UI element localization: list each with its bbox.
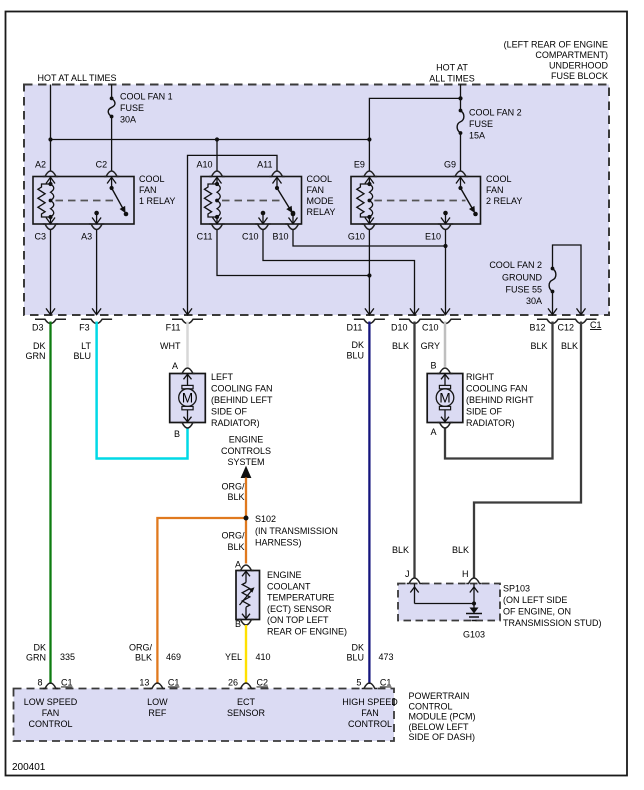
label: COOL FAN 2 RELAY <box>486 174 522 206</box>
wire: A10 feed from bus <box>216 140 218 172</box>
label: COOL FAN 2 GROUND FUSE 55 30A <box>489 260 542 306</box>
label: ECT SENSOR <box>267 570 347 637</box>
svg-text:COOLING FAN: COOLING FAN <box>466 384 528 394</box>
svg-text:FUSE: FUSE <box>469 119 493 129</box>
svg-text:(LEFT REAR OF ENGINE: (LEFT REAR OF ENGINE <box>504 40 608 50</box>
relay COOL FAN 2 RELAY dashed link <box>374 200 465 202</box>
ECT sensor box <box>236 571 260 620</box>
motor RIGHT COOLING FAN pin A/B bumps <box>437 368 452 428</box>
label: POWERTRAIN CONTROL MODULE (PCM) (BELOW LEFT SIDE OF DASH) <box>409 691 476 742</box>
svg-text:B: B <box>235 619 241 629</box>
label: COOL FAN 1 FUSE 30A <box>120 92 173 125</box>
relay pin G9 (top) <box>444 160 468 177</box>
relay COOL FAN 2 RELAY switch <box>456 177 478 216</box>
svg-text:C1: C1 <box>380 678 392 688</box>
svg-text:COMPARTMENT): COMPARTMENT) <box>535 50 608 60</box>
svg-text:M: M <box>182 390 193 405</box>
relay COOL FAN 1 RELAY contact pin stub x=96.6 <box>92 211 101 224</box>
svg-text:J: J <box>405 569 410 579</box>
svg-text:POWERTRAIN: POWERTRAIN <box>409 691 470 701</box>
svg-text:HOT AT ALL TIMES: HOT AT ALL TIMES <box>38 73 117 83</box>
fuse block exit pin F11 <box>166 308 203 332</box>
svg-text:HIGH SPEED: HIGH SPEED <box>342 697 398 707</box>
svg-text:473: 473 <box>379 652 394 662</box>
svg-text:(IN TRANSMISSION: (IN TRANSMISSION <box>255 526 338 536</box>
svg-text:DK: DK <box>351 340 364 350</box>
SP103 pin J <box>405 569 422 584</box>
svg-text:CONTROLS: CONTROLS <box>221 446 271 456</box>
svg-text:HARNESS): HARNESS) <box>255 538 302 548</box>
svg-text:GRY: GRY <box>421 341 440 351</box>
svg-text:(ECT) SENSOR: (ECT) SENSOR <box>267 604 332 614</box>
fuse COOL FAN 2 GROUND FUSE 55 30A <box>551 267 555 271</box>
relay COOL FAN MODE RELAY switch <box>273 177 296 216</box>
label: COOL FAN 1 RELAY <box>139 174 175 206</box>
fuse block exit pin D10 <box>391 308 430 332</box>
svg-text:BLK: BLK <box>561 341 578 351</box>
motor LEFT COOLING FAN <box>170 374 206 423</box>
arrow to engine controls system <box>241 466 252 478</box>
svg-text:A10: A10 <box>196 160 212 170</box>
svg-text:F3: F3 <box>79 323 90 333</box>
SP103 box <box>398 584 500 621</box>
wire: B12 riser + ground-fuse loop to C12 <box>552 292 554 315</box>
svg-text:ENGINE: ENGINE <box>267 570 302 580</box>
svg-text:REF: REF <box>148 708 167 718</box>
svg-text:COOL FAN 1: COOL FAN 1 <box>120 92 173 102</box>
svg-text:S102: S102 <box>255 514 276 524</box>
header note: location of fuse block <box>504 40 609 82</box>
svg-text:30A: 30A <box>120 115 136 125</box>
relay box COOL FAN MODE RELAY <box>201 177 302 225</box>
svg-text:200401: 200401 <box>12 762 46 773</box>
ground G103 <box>466 608 482 621</box>
svg-text:(BEHIND LEFT: (BEHIND LEFT <box>211 395 273 405</box>
svg-text:FAN: FAN <box>486 185 504 195</box>
svg-text:MODULE (PCM): MODULE (PCM) <box>409 712 476 722</box>
svg-text:G103: G103 <box>463 630 485 640</box>
label SP103 (ON LEFT SIDE OF ENGINE, ON TRANSMISSION STUD) <box>503 584 602 629</box>
wire: power bus <box>51 139 370 141</box>
label: RIGHT COOLING FAN <box>466 372 534 428</box>
node: HOT AT ALL TIMES (right) <box>429 63 475 84</box>
wire DK GRN circuit 335 (D3 to PCM pin 8) <box>49 322 51 685</box>
svg-text:COOLING FAN: COOLING FAN <box>211 384 273 394</box>
node: ENGINE CONTROLS SYSTEM <box>221 435 271 468</box>
wire: mode relay C10 to D10 <box>263 230 415 315</box>
svg-text:SP103: SP103 <box>503 584 530 594</box>
svg-text:ECT: ECT <box>237 697 256 707</box>
junction dots on bus <box>48 137 52 141</box>
wire BLK (D10 to SP103 J) <box>413 322 415 579</box>
relay COOL FAN MODE RELAY contact pin stub x=263 <box>259 211 268 224</box>
relay pin A2 (top) <box>35 160 58 177</box>
svg-text:SENSOR: SENSOR <box>227 708 266 718</box>
svg-text:BLK: BLK <box>452 545 469 555</box>
svg-text:ORG/: ORG/ <box>129 643 153 653</box>
svg-text:COOLANT: COOLANT <box>267 581 311 591</box>
relay pin A11 (top) <box>257 160 285 177</box>
svg-text:FAN: FAN <box>307 185 325 195</box>
relay COOL FAN 1 RELAY switch <box>107 177 128 216</box>
wire: right hot feed <box>460 85 462 111</box>
svg-text:A11: A11 <box>257 160 272 170</box>
svg-text:(ON TOP LEFT: (ON TOP LEFT <box>267 615 329 625</box>
svg-text:CONTROL: CONTROL <box>409 701 453 711</box>
svg-text:(BEHIND RIGHT: (BEHIND RIGHT <box>466 395 534 405</box>
PCM function: LOW REF <box>147 697 168 718</box>
junction dot B10/E10 <box>443 244 447 248</box>
svg-text:RADIATOR): RADIATOR) <box>211 418 260 428</box>
svg-text:B12: B12 <box>529 323 545 333</box>
relay COOL FAN 1 RELAY coil <box>38 177 55 224</box>
svg-text:YEL: YEL <box>225 652 242 662</box>
svg-text:ENGINE: ENGINE <box>229 435 264 445</box>
wire: C11 joins G10 line <box>217 230 369 276</box>
svg-text:BLK: BLK <box>392 341 409 351</box>
fuse COOL FAN 1 FUSE 30A <box>110 97 114 101</box>
svg-text:COOL: COOL <box>486 174 512 184</box>
SP103 internal wires <box>410 584 478 610</box>
wire label DK BLU + 473 (lower) <box>346 643 393 663</box>
svg-text:SIDE OF: SIDE OF <box>466 407 503 417</box>
PCM pin 13 C1 <box>139 678 179 689</box>
wire label ORG/BLK + 469 (lower) <box>129 643 181 663</box>
svg-text:A3: A3 <box>81 232 92 242</box>
svg-text:DK: DK <box>33 341 46 351</box>
relay pin A10 (top) <box>196 160 224 177</box>
svg-text:RELAY: RELAY <box>307 207 336 217</box>
wire: E9 feed from bus <box>368 140 370 172</box>
relay box COOL FAN 1 RELAY <box>33 177 134 225</box>
PCM pin 5 C1 <box>356 678 391 689</box>
svg-text:BLK: BLK <box>227 492 244 502</box>
wire label LT BLU <box>73 341 91 361</box>
PCM function: LOW SPEED FAN CONTROL <box>24 697 78 729</box>
svg-text:LOW SPEED: LOW SPEED <box>24 697 78 707</box>
svg-text:(BELOW LEFT: (BELOW LEFT <box>409 722 470 732</box>
relay COOL FAN MODE RELAY coil <box>204 177 221 224</box>
fuse block exit pin D3 <box>32 308 66 332</box>
svg-text:GRN: GRN <box>26 653 46 663</box>
fuse block exit pin D11 <box>347 308 385 332</box>
svg-text:13: 13 <box>139 678 149 688</box>
wire DK BLU circuit 473 (D11 to PCM pin 5) <box>368 322 370 685</box>
svg-text:MODE: MODE <box>307 196 334 206</box>
svg-text:BLK: BLK <box>530 341 547 351</box>
wire label YEL + 410 <box>225 652 271 662</box>
svg-text:COOL: COOL <box>139 174 165 184</box>
wire label ORG/BLK (lower) <box>221 531 245 553</box>
svg-text:B: B <box>174 429 180 439</box>
svg-text:A2: A2 <box>35 160 46 170</box>
PCM pin 8 C1 <box>37 678 72 689</box>
svg-text:CONTROL: CONTROL <box>348 719 392 729</box>
svg-text:M: M <box>439 390 450 405</box>
svg-text:LEFT: LEFT <box>211 372 234 382</box>
svg-text:DK: DK <box>351 643 364 653</box>
wire label DK BLU (upper) <box>346 340 364 361</box>
svg-text:ALL TIMES: ALL TIMES <box>429 74 475 84</box>
svg-text:TEMPERATURE: TEMPERATURE <box>267 593 334 603</box>
svg-text:30A: 30A <box>526 296 542 306</box>
label S102 (IN TRANSMISSION HARNESS) <box>255 514 338 548</box>
svg-text:C11: C11 <box>197 232 213 242</box>
svg-text:WHT: WHT <box>160 341 181 351</box>
svg-text:1 RELAY: 1 RELAY <box>139 196 175 206</box>
relay pin C11 (bottom) <box>197 224 225 242</box>
relay box COOL FAN 2 RELAY <box>351 177 481 225</box>
label: LEFT COOLING FAN <box>211 372 273 428</box>
wire BLK (C12 to SP103 H) <box>474 322 581 579</box>
svg-text:335: 335 <box>60 652 75 662</box>
wire ORG/BLK circuit 469 (S102 to PCM pin 13) <box>157 518 246 684</box>
PCM box <box>14 689 395 742</box>
relay pin C2 (top) <box>96 160 120 177</box>
svg-text:GRN: GRN <box>26 351 46 361</box>
svg-text:SYSTEM: SYSTEM <box>227 457 264 467</box>
relay pin C3 (bottom) <box>34 224 58 242</box>
SP103 pin H <box>462 569 482 584</box>
svg-text:SIDE OF: SIDE OF <box>211 407 248 417</box>
svg-text:D11: D11 <box>347 323 363 333</box>
svg-text:REAR OF ENGINE): REAR OF ENGINE) <box>267 627 347 637</box>
wire label DK GRN <box>26 341 46 361</box>
svg-text:A: A <box>430 427 436 437</box>
wire: A3 to F3 <box>96 230 98 315</box>
svg-text:D10: D10 <box>391 323 408 333</box>
label: COOL FAN MODE RELAY <box>307 174 336 217</box>
svg-text:8: 8 <box>37 678 42 688</box>
svg-text:A: A <box>235 560 241 570</box>
svg-text:G10: G10 <box>348 232 365 242</box>
svg-text:DK: DK <box>33 643 46 653</box>
ECT thermistor <box>240 571 255 620</box>
svg-text:B: B <box>430 361 436 371</box>
relay COOL FAN MODE RELAY contact pin stub x=293 <box>289 211 298 224</box>
relay COOL FAN 2 RELAY coil <box>357 177 374 224</box>
svg-text:BLU: BLU <box>346 351 364 361</box>
svg-text:410: 410 <box>256 652 271 662</box>
fuse block exit pin C10 <box>422 308 461 332</box>
svg-text:G9: G9 <box>444 160 456 170</box>
svg-text:CONTROL: CONTROL <box>28 719 72 729</box>
wire: E10 to C10 exit <box>445 230 447 315</box>
wire GRY (C10 to right fan B) <box>444 322 447 367</box>
relay pin B10 (bottom) <box>272 224 300 242</box>
svg-text:BLK: BLK <box>227 542 244 552</box>
fuse block exit pin C12 <box>557 308 596 332</box>
svg-text:15A: 15A <box>469 131 485 141</box>
svg-text:C1: C1 <box>168 678 180 688</box>
wire LT BLU (F3 to left fan B) <box>97 322 188 459</box>
svg-text:FAN: FAN <box>139 185 157 195</box>
wire: B10 joins E10 line <box>293 230 446 247</box>
label: COOL FAN 2 FUSE 15A <box>469 108 522 141</box>
splice S102 <box>244 516 249 521</box>
svg-text:FAN: FAN <box>361 708 379 718</box>
relay COOL FAN 2 RELAY contact pin stub x=445.5 <box>441 211 450 224</box>
svg-text:D3: D3 <box>32 323 44 333</box>
svg-text:BLU: BLU <box>73 351 91 361</box>
svg-text:5: 5 <box>356 678 361 688</box>
svg-text:C10: C10 <box>242 232 259 242</box>
svg-text:C2: C2 <box>96 160 108 170</box>
svg-text:RADIATOR): RADIATOR) <box>466 418 515 428</box>
svg-text:HOT AT: HOT AT <box>436 63 468 73</box>
svg-text:FUSE BLOCK: FUSE BLOCK <box>551 71 608 81</box>
wire: fuse2 to G9 <box>460 133 462 171</box>
svg-text:COOL: COOL <box>307 174 333 184</box>
fuse block exit pin F3 <box>79 308 112 332</box>
svg-text:26: 26 <box>228 678 238 688</box>
PCM pin 26 C2 <box>228 678 268 689</box>
svg-text:UNDERHOOD: UNDERHOOD <box>549 61 609 71</box>
svg-text:COOL FAN 2: COOL FAN 2 <box>469 108 522 118</box>
svg-text:C10: C10 <box>422 323 439 333</box>
relay COOL FAN 1 RELAY dashed link <box>56 200 117 202</box>
svg-text:E10: E10 <box>425 232 441 242</box>
wire: left hot feed down to A2 <box>50 85 52 172</box>
wire: fuse1 feed down to C2 <box>111 85 113 99</box>
PCM function: HIGH SPEED FAN CONTROL <box>342 697 398 729</box>
wire label ORG/BLK (upper) <box>221 482 245 503</box>
svg-text:FAN: FAN <box>42 708 60 718</box>
svg-text:C3: C3 <box>34 232 46 242</box>
wire ORG/BLK (arrow to S102 to ECT A) <box>245 478 247 564</box>
svg-text:B10: B10 <box>272 232 288 242</box>
svg-text:BLK: BLK <box>135 653 152 663</box>
svg-text:(ON LEFT SIDE: (ON LEFT SIDE <box>503 595 567 605</box>
wire label DK GRN + 335 (lower) <box>26 643 75 663</box>
svg-text:RIGHT: RIGHT <box>466 372 495 382</box>
ECT sensor bumps <box>238 565 253 625</box>
wire: C3 to D3 <box>50 230 52 315</box>
svg-text:OF ENGINE, ON: OF ENGINE, ON <box>503 607 571 617</box>
svg-text:C12: C12 <box>557 323 574 333</box>
fuse COOL FAN 2 FUSE 15A <box>459 109 463 113</box>
wire WHT (F11 to left fan A) <box>186 322 189 367</box>
relay pin A3 (bottom) <box>81 224 104 242</box>
wire: branch to E9 <box>369 98 460 139</box>
motor RIGHT COOLING FAN <box>427 374 463 423</box>
relay COOL FAN MODE RELAY dashed link <box>222 200 282 202</box>
svg-text:A: A <box>172 361 178 371</box>
svg-text:LT: LT <box>81 341 91 351</box>
svg-text:E9: E9 <box>354 160 365 170</box>
svg-text:LOW: LOW <box>147 697 168 707</box>
svg-text:ORG/: ORG/ <box>221 531 245 541</box>
wire YEL circuit 410 (ECT B to PCM 26) <box>245 625 247 684</box>
svg-text:F11: F11 <box>166 323 181 333</box>
svg-text:BLU: BLU <box>346 653 364 663</box>
svg-text:ORG/: ORG/ <box>221 482 245 492</box>
svg-text:2 RELAY: 2 RELAY <box>486 196 522 206</box>
fuse block exit pin B12 <box>529 308 568 332</box>
svg-text:C1: C1 <box>590 320 602 330</box>
svg-text:TRANSMISSION STUD): TRANSMISSION STUD) <box>503 618 602 628</box>
svg-text:C1: C1 <box>61 678 73 688</box>
svg-text:C2: C2 <box>257 678 269 688</box>
svg-text:COOL FAN 2: COOL FAN 2 <box>489 260 542 270</box>
relay pin G10 (bottom) <box>348 224 377 242</box>
wire: F11 to A11 feed <box>188 155 278 315</box>
junction dot C11/G10 <box>367 273 371 277</box>
motor LEFT COOLING FAN pin A/B bumps <box>180 368 195 428</box>
svg-text:FUSE: FUSE <box>120 103 144 113</box>
relay pin E9 (top) <box>354 160 377 177</box>
svg-text:SIDE OF DASH): SIDE OF DASH) <box>409 732 476 742</box>
junction dot right feed <box>458 96 462 100</box>
svg-text:FUSE 55: FUSE 55 <box>505 285 542 295</box>
svg-text:BLK: BLK <box>392 545 409 555</box>
wire: G10 to D11 <box>368 230 370 315</box>
relay pin C10 (bottom) <box>242 224 271 242</box>
svg-text:469: 469 <box>166 652 181 662</box>
wire BLK (B12 to right fan A) <box>445 322 553 459</box>
relay pin E10 (bottom) <box>425 224 453 242</box>
underhood fuse block (dashed box) <box>24 85 609 316</box>
svg-text:GROUND: GROUND <box>502 273 542 283</box>
svg-text:H: H <box>462 569 469 579</box>
PCM function: ECT SENSOR <box>227 697 266 718</box>
